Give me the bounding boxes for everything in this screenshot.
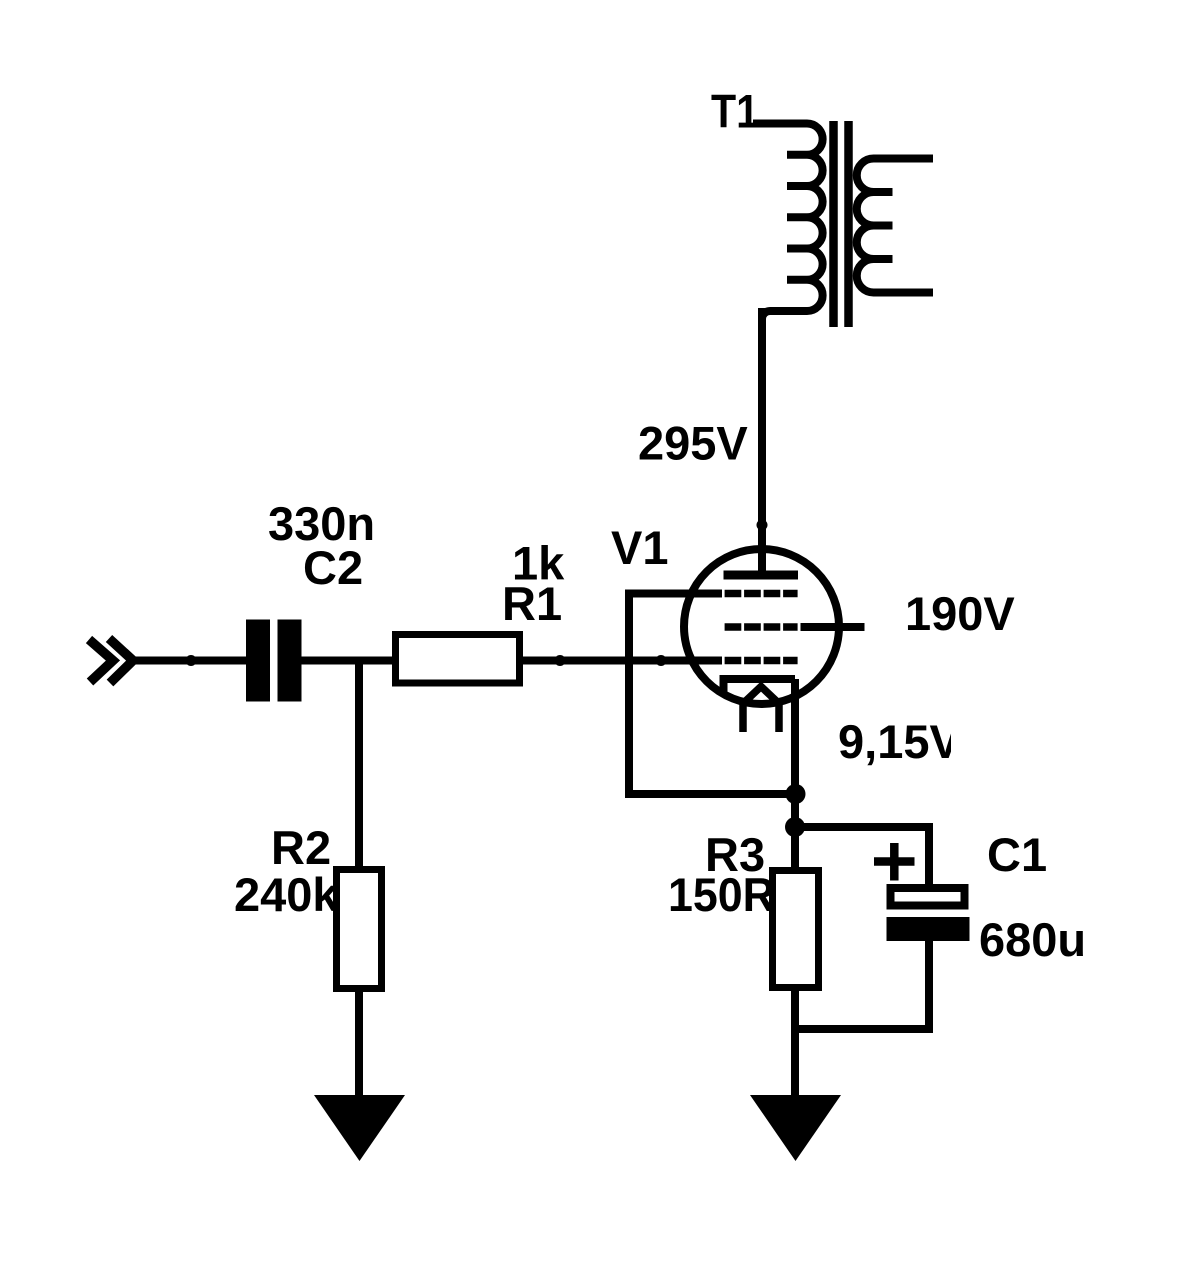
node bendpoint on input wire [186,655,197,666]
node bendpoint [656,655,667,666]
svg-text:240k: 240k [234,868,339,921]
capacitor C1 plus sign [874,843,915,881]
svg-text:T1: T1 [711,85,759,138]
wire C1 bottom to R3 bottom [795,940,929,1029]
resistor R1 [396,635,520,684]
transformer T1 secondary winding [857,159,933,293]
tube V1 envelope [684,549,839,704]
grid g1 dashes [725,657,798,665]
svg-text:C2: C2 [303,541,363,594]
wire input to C2 [128,657,246,665]
wire g3 to cathode loop [629,594,795,795]
secondary winding stubs [874,192,893,259]
transformer T1 primary winding [753,124,823,331]
wire R3 to ground [791,988,799,1100]
resistor R3 [773,871,819,988]
capacitor C2 [246,620,270,702]
svg-text:680u: 680u [979,913,1086,966]
wire R1 to grid [523,657,722,665]
svg-text:190V: 190V [905,587,1015,640]
svg-text:R2: R2 [271,821,331,874]
cathode [724,679,796,694]
node bendpoint on plate wire [757,520,768,531]
capacitor C1 top plate [891,888,965,906]
wire g2 to 190V measurement [801,623,865,631]
junction node [785,817,805,837]
wire cathode down to R3 [791,679,799,867]
capacitor C1 bottom plate [887,917,970,941]
svg-text:R1: R1 [502,577,562,630]
svg-text:295V: 295V [638,417,748,470]
input connector J1 [89,639,133,684]
svg-text:9,15V: 9,15V [838,715,961,768]
ground [750,1095,841,1161]
grid g2 dashes [725,623,798,631]
wire C2 to R1 [302,657,396,665]
svg-text:150R: 150R [668,868,775,921]
resistor R2 [337,870,382,989]
junction node [786,784,806,804]
wire junction to C1 top [795,827,929,889]
svg-text:V1: V1 [611,521,669,574]
primary winding stubs [787,155,807,280]
plate lead wire [758,308,766,571]
ground [314,1095,405,1161]
transformer core [829,121,838,327]
wire R2 to ground [355,992,363,1100]
svg-text:C1: C1 [987,828,1047,881]
wire R2 branch [355,661,363,867]
heater filament [743,687,779,733]
node bendpoint [555,655,566,666]
grid g3 dashes [725,590,798,598]
plate (anode) bar [724,571,799,580]
